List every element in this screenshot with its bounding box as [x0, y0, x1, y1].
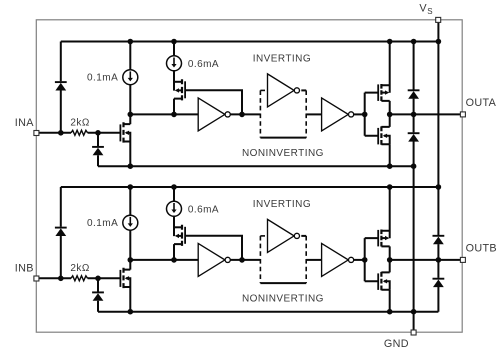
svg-text:V: V: [419, 2, 427, 14]
svg-text:OUTA: OUTA: [466, 97, 497, 109]
svg-text:S: S: [427, 7, 432, 16]
svg-text:INB: INB: [15, 263, 34, 275]
svg-text:INA: INA: [15, 117, 34, 129]
svg-text:OUTB: OUTB: [466, 243, 497, 255]
svg-text:GND: GND: [384, 338, 409, 350]
